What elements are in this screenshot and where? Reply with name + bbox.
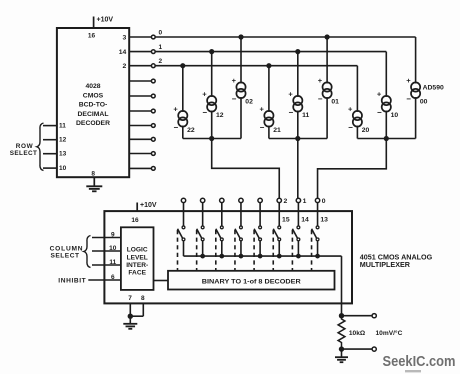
svg-text:−: −	[173, 123, 178, 132]
svg-text:11: 11	[59, 122, 66, 129]
svg-text:DECIMAL: DECIMAL	[78, 111, 109, 118]
svg-text:CMOS: CMOS	[83, 92, 104, 99]
svg-text:+10V: +10V	[140, 202, 157, 209]
svg-text:11: 11	[109, 259, 116, 266]
svg-text:10: 10	[391, 112, 399, 119]
svg-text:10kΩ: 10kΩ	[349, 330, 366, 337]
svg-text:+: +	[377, 90, 382, 99]
svg-text:DECODER: DECODER	[76, 120, 110, 127]
svg-text:2: 2	[123, 63, 127, 70]
svg-text:−: −	[348, 123, 353, 132]
svg-text:02: 02	[245, 99, 253, 106]
svg-text:+: +	[288, 90, 293, 99]
svg-text:9: 9	[111, 231, 115, 238]
svg-text:+: +	[406, 76, 411, 85]
svg-text:3: 3	[123, 34, 127, 41]
svg-text:FACE: FACE	[128, 270, 146, 277]
svg-text:01: 01	[331, 99, 339, 106]
svg-text:INHIBIT: INHIBIT	[58, 278, 86, 285]
svg-text:11: 11	[302, 112, 309, 119]
svg-text:BINARY TO 1-of 8 DECODER: BINARY TO 1-of 8 DECODER	[202, 278, 301, 285]
svg-text:13: 13	[59, 151, 67, 158]
svg-text:+: +	[318, 76, 323, 85]
svg-text:10mV/°C: 10mV/°C	[376, 329, 403, 337]
svg-text:00: 00	[420, 99, 428, 106]
svg-text:−: −	[406, 94, 411, 103]
svg-text:0: 0	[322, 198, 326, 205]
svg-text:6: 6	[111, 274, 115, 281]
svg-text:MULTIPLEXER: MULTIPLEXER	[360, 260, 411, 269]
svg-text:1: 1	[159, 44, 163, 51]
svg-text:21: 21	[273, 127, 281, 134]
svg-text:LEVEL: LEVEL	[127, 254, 148, 261]
svg-text:−: −	[260, 123, 265, 132]
svg-text:12: 12	[59, 137, 67, 144]
svg-text:2: 2	[159, 58, 163, 65]
svg-text:+: +	[173, 105, 178, 114]
svg-text:12: 12	[216, 112, 224, 119]
svg-text:0: 0	[159, 30, 163, 37]
svg-text:15: 15	[282, 216, 290, 223]
svg-text:−: −	[232, 94, 237, 103]
svg-text:SELECT: SELECT	[50, 252, 79, 259]
svg-text:BCD-TO-: BCD-TO-	[79, 102, 108, 109]
svg-text:4028: 4028	[85, 83, 100, 90]
svg-text:1: 1	[303, 198, 307, 205]
svg-text:16: 16	[131, 217, 139, 224]
svg-text:LOGIC: LOGIC	[127, 247, 148, 254]
svg-text:7: 7	[128, 295, 132, 302]
svg-text:INTER-: INTER-	[126, 262, 148, 269]
svg-text:−: −	[318, 94, 323, 103]
svg-text:+: +	[260, 105, 265, 114]
svg-text:14: 14	[301, 216, 309, 223]
svg-text:SeekIC.com: SeekIC.com	[383, 353, 456, 370]
svg-text:+: +	[232, 76, 237, 85]
svg-text:ROW: ROW	[16, 143, 34, 150]
svg-text:−: −	[377, 108, 382, 117]
svg-text:AD590: AD590	[423, 84, 444, 91]
svg-text:−: −	[288, 108, 293, 117]
svg-text:2: 2	[283, 198, 287, 205]
svg-text:8: 8	[141, 295, 145, 302]
svg-text:+10V: +10V	[97, 17, 114, 24]
svg-text:10: 10	[59, 165, 67, 172]
svg-text:8: 8	[91, 171, 95, 178]
svg-text:SELECT: SELECT	[10, 150, 38, 157]
svg-text:+: +	[348, 105, 353, 114]
svg-text:COLUMN: COLUMN	[50, 245, 84, 252]
svg-text:14: 14	[119, 49, 127, 56]
svg-text:10: 10	[109, 245, 117, 252]
svg-text:−: −	[202, 108, 207, 117]
svg-text:22: 22	[187, 127, 195, 134]
svg-text:+: +	[202, 90, 207, 99]
svg-text:16: 16	[88, 33, 96, 40]
svg-text:13: 13	[320, 216, 328, 223]
svg-text:20: 20	[362, 127, 370, 134]
